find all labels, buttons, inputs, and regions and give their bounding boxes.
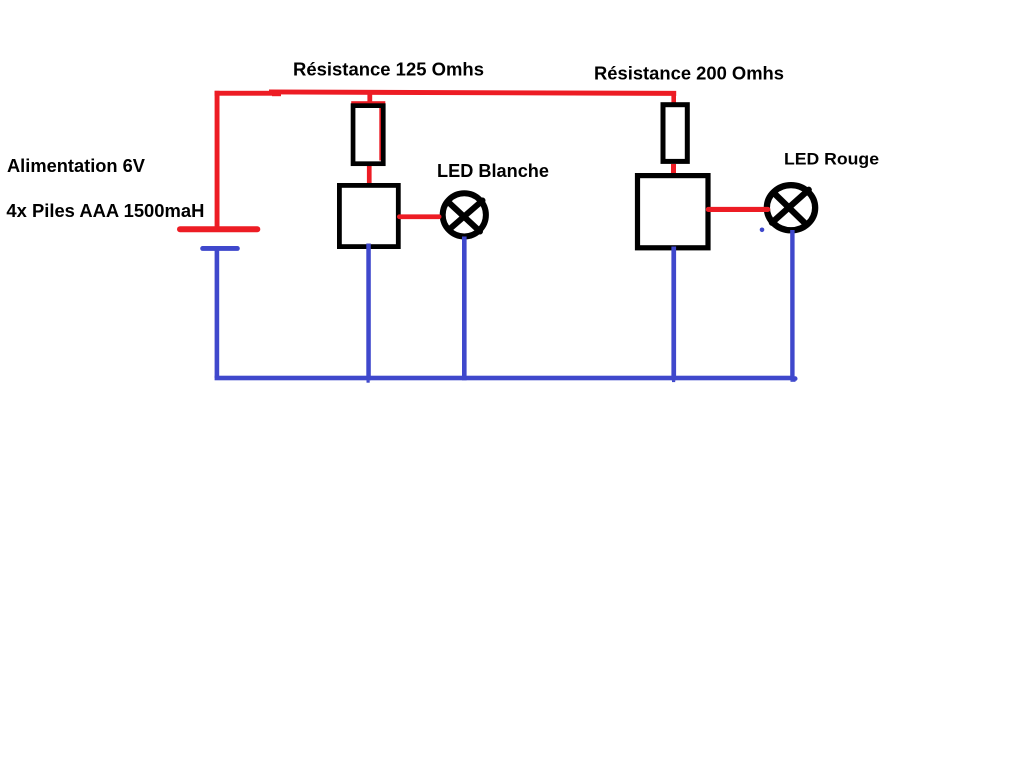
box 2 (LED Rouge module): [638, 176, 709, 248]
node: stray blue dot left of LED Rouge: [760, 228, 765, 233]
wire: red horizontal from box 2 to LED Rouge: [706, 207, 771, 212]
wire: red sliver above resistor R1 top edge: [351, 101, 385, 105]
wire: red horizontal from box 1 to LED Blanche: [397, 214, 442, 219]
label: LED Rouge: [784, 150, 879, 169]
wire: blue stub from LED Blanche down to bottom bus: [462, 237, 467, 381]
wire: small red overlap nub where the two top strokes join: [272, 93, 281, 96]
wire: red corner stub from top bus down into resistor R2: [671, 92, 676, 103]
label: 4x Piles AAA 1500maH: [6, 201, 204, 221]
battery negative plate (blue bar): [200, 246, 240, 251]
resistor R2 (200 Ohms) body: [663, 105, 687, 162]
label: Résistance 125 Omhs: [293, 60, 484, 80]
label: Résistance 200 Omhs: [594, 63, 784, 83]
svg-text:4x Piles AAA 1500maH: 4x Piles AAA 1500maH: [6, 201, 204, 221]
junction: blue nub below bus at box 2 stub: [672, 380, 675, 382]
label: Alimentation 6V: [7, 156, 145, 176]
svg-text:LED Blanche: LED Blanche: [437, 161, 549, 181]
wire: red top horizontal stroke B (long segment to resistor R2): [269, 90, 676, 96]
svg-text:LED Rouge: LED Rouge: [784, 150, 879, 169]
wire: red stub from top bus down into resistor R1: [367, 94, 372, 104]
svg-text:Résistance 200 Omhs: Résistance 200 Omhs: [594, 63, 784, 83]
wire: red sliver along inner right edge of resistor R1: [379, 103, 382, 161]
junction: blue nub below bus at box 1 stub: [367, 380, 370, 382]
LED Blanche lamp symbol: ring: [443, 193, 486, 236]
wire: blue stub from box 2 down to bottom bus: [671, 247, 676, 381]
label: LED Blanche: [437, 161, 549, 181]
svg-text:Alimentation 6V: Alimentation 6V: [7, 156, 145, 176]
battery positive plate (red bar): [177, 226, 260, 232]
LED Blanche lamp symbol: X cross: [449, 201, 482, 232]
resistor R1 (125 Ohms) body: [353, 106, 383, 164]
wire: red vertical from battery positive up to top bus: [215, 91, 220, 229]
wire: blue stub from LED Rouge down to bottom bus: [790, 230, 794, 380]
svg-text:Résistance 125 Omhs: Résistance 125 Omhs: [293, 60, 484, 80]
wire: red stub from resistor R2 down to box 2: [671, 164, 676, 174]
junction: blue nub at bottom-right corner of bus: [791, 376, 798, 382]
LED Rouge lamp symbol: X cross: [772, 190, 809, 223]
wire: blue vertical from battery negative down to bottom bus: [215, 250, 220, 378]
wire: blue bottom bus horizontal: [215, 376, 794, 381]
wire: blue stub from box 1 down to bottom bus: [366, 244, 371, 381]
wire: red stub from resistor R1 down to box 1: [367, 166, 372, 184]
LED Rouge lamp symbol: ring: [767, 185, 815, 230]
box 1 (LED Blanche module): [339, 185, 398, 246]
wire: red top horizontal stroke A (left segment): [215, 91, 279, 96]
